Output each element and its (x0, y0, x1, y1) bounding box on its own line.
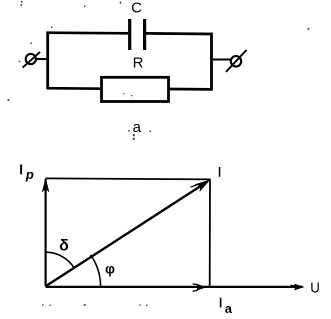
wire (47, 87, 102, 90)
wire (146, 32, 213, 35)
vector Ia (arrowhead on horizontal axis) (193, 284, 207, 292)
wire (212, 59, 231, 61)
wire (top side of rectangle) (46, 178, 211, 179)
label I (219, 167, 221, 177)
label Ip (20, 165, 34, 182)
angle delta arc (46, 252, 75, 268)
svg-text:δ: δ (59, 238, 69, 255)
svg-text:U: U (310, 279, 320, 296)
wire (47, 31, 129, 34)
wire (210, 33, 213, 90)
terminal left (23, 52, 40, 68)
wire (right side of rectangle) (209, 180, 211, 288)
wire (46, 32, 49, 89)
axis Ip (vertical phasor axis with arrowhead) (42, 178, 50, 287)
svg-text:a: a (133, 119, 142, 136)
svg-text:a: a (225, 301, 233, 316)
svg-text:C: C (131, 0, 142, 17)
svg-text:R: R (133, 54, 144, 71)
svg-text:p: p (25, 167, 34, 182)
wire (169, 88, 213, 91)
terminal right (226, 50, 247, 72)
angle phi arc (91, 255, 101, 286)
label Ia (220, 298, 233, 316)
resistor R (102, 77, 169, 101)
capacitor C (130, 19, 145, 50)
scan noise dots (decorative) (8, 1, 310, 140)
axis U (horizontal with arrowhead) (46, 284, 305, 291)
vector I (diagonal with arrowhead) (46, 180, 211, 287)
svg-text:φ: φ (105, 261, 115, 277)
wire (36, 58, 48, 60)
